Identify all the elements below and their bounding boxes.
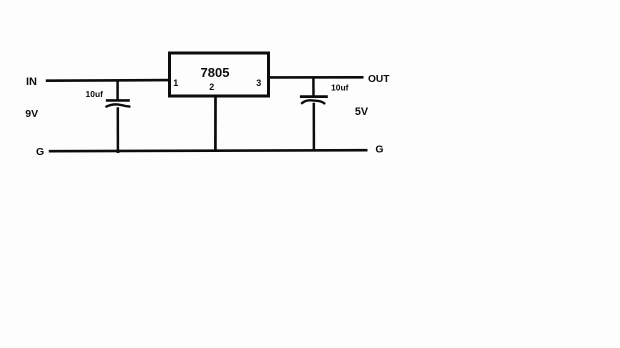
capacitor C2 top plate bbox=[300, 95, 328, 98]
svg-text:10uf: 10uf bbox=[331, 83, 349, 93]
svg-text:7805: 7805 bbox=[201, 65, 230, 80]
svg-text:5V: 5V bbox=[355, 106, 369, 118]
capacitor C2 lead to ground bbox=[313, 103, 316, 151]
capacitor C1 top plate bbox=[106, 99, 130, 102]
svg-text:G: G bbox=[36, 146, 44, 158]
svg-text:IN: IN bbox=[26, 76, 37, 88]
node IN label bbox=[26, 76, 37, 88]
pin 2 label bbox=[209, 82, 214, 92]
node 5V label bbox=[355, 106, 369, 118]
regulator U1 7805 box bbox=[170, 53, 269, 96]
capacitor C1 lead from IN wire bbox=[116, 80, 119, 101]
svg-text:G: G bbox=[375, 144, 383, 156]
ground wire G to G bbox=[49, 150, 368, 151]
node 9V label bbox=[25, 108, 38, 120]
junction C1 / ground wire bbox=[116, 149, 120, 153]
svg-text:1: 1 bbox=[173, 78, 178, 88]
pin 1 label bbox=[173, 78, 178, 88]
ground G label left bbox=[36, 146, 44, 158]
svg-text:9V: 9V bbox=[25, 108, 38, 120]
capacitor C1 curved plate bbox=[106, 104, 129, 106]
value label 7805 bbox=[201, 65, 230, 80]
capacitor C1 lead to ground bbox=[117, 107, 120, 151]
node OUT label bbox=[368, 74, 390, 85]
wire regulator pin 2 to ground bbox=[214, 96, 217, 151]
svg-text:OUT: OUT bbox=[368, 74, 390, 85]
svg-text:2: 2 bbox=[209, 82, 214, 92]
value label 10uf right bbox=[331, 83, 349, 93]
value label 10uf left bbox=[86, 89, 104, 99]
svg-text:10uf: 10uf bbox=[86, 89, 104, 99]
ground G label right bbox=[375, 144, 383, 156]
wire regulator pin 3 to OUT bbox=[269, 76, 364, 79]
wire IN to regulator pin 1 bbox=[46, 79, 169, 82]
capacitor C2 lead from OUT wire bbox=[312, 77, 315, 98]
svg-text:3: 3 bbox=[256, 78, 261, 88]
capacitor C2 curved plate bbox=[302, 100, 325, 103]
pin 3 label bbox=[256, 78, 261, 88]
